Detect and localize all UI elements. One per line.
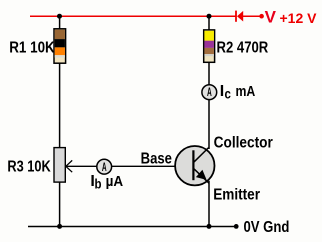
svg-text:I: I — [220, 83, 224, 100]
svg-text:R1 10K: R1 10K — [9, 39, 55, 56]
svg-text:V: V — [265, 7, 277, 26]
svg-text:R2 470R: R2 470R — [217, 39, 269, 56]
svg-text:c: c — [225, 85, 231, 101]
svg-text:mA: mA — [236, 83, 256, 99]
svg-text:A: A — [207, 86, 212, 100]
svg-text:0V Gnd: 0V Gnd — [244, 219, 290, 236]
svg-text:Emitter: Emitter — [213, 186, 260, 203]
svg-text:Base: Base — [141, 150, 172, 167]
svg-text:µA: µA — [106, 173, 124, 190]
svg-text:+12 V: +12 V — [280, 10, 318, 26]
svg-text:b: b — [95, 175, 102, 191]
svg-text:Collector: Collector — [214, 134, 273, 151]
svg-text:R3 10K: R3 10K — [7, 158, 51, 176]
